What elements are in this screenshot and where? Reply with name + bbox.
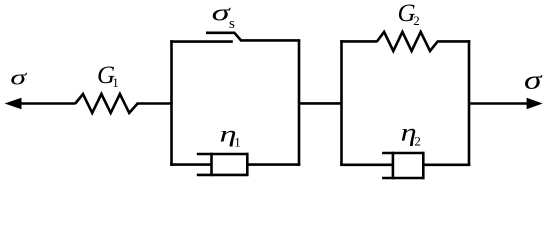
svg-text:σ: σ bbox=[524, 65, 543, 94]
wire: bottom edge left segment to dashpot η1 piston bbox=[170, 163, 211, 166]
dashpot η2 cylinder top wall bbox=[382, 152, 423, 155]
dashpot η2 cylinder right end bbox=[422, 152, 425, 180]
dashpot η1 piston plate bbox=[210, 153, 213, 177]
wire: left arrow shaft bbox=[20, 102, 76, 105]
dashpot η1 cylinder bottom wall bbox=[197, 174, 248, 177]
wire: dashpot η2 to Kelvin block bottom-right corner bbox=[423, 164, 470, 167]
spring G1 bbox=[75, 94, 137, 113]
Kelvin block left edge wire bbox=[340, 40, 343, 166]
dashpot η1 cylinder right end bbox=[246, 153, 249, 177]
svg-text:2: 2 bbox=[414, 134, 421, 149]
wire: right arrow shaft bbox=[469, 102, 528, 105]
spring G2 bbox=[377, 32, 438, 51]
right load arrowhead (σ direction) bbox=[527, 98, 543, 110]
Kelvin block right edge wire bbox=[468, 40, 471, 166]
friction slider σs lower plate (top edge left segment) bbox=[170, 40, 233, 43]
wire: Kelvin block bottom edge left segment to dashpot η2 piston bbox=[340, 164, 393, 167]
dashpot η2 cylinder bottom wall bbox=[382, 177, 423, 180]
friction slider σs upper plate bbox=[206, 33, 300, 41]
svg-text:1: 1 bbox=[234, 135, 241, 150]
left load arrowhead (σ direction) bbox=[5, 98, 22, 110]
svg-text:2: 2 bbox=[413, 13, 420, 28]
Bingham block left edge wire bbox=[170, 40, 173, 166]
svg-text:1: 1 bbox=[112, 75, 119, 90]
dashpot η2 piston plate bbox=[392, 152, 395, 180]
dashpot η1 cylinder top wall bbox=[197, 153, 248, 156]
wire: Kelvin block top edge right segment bbox=[437, 40, 470, 43]
Bingham block right edge wire bbox=[298, 40, 301, 166]
wire: Kelvin block top edge left segment bbox=[340, 40, 377, 43]
wire: dashpot η1 to Bingham block bottom-right corner bbox=[247, 163, 300, 166]
svg-text:s: s bbox=[229, 16, 235, 32]
svg-text:σ: σ bbox=[10, 65, 27, 89]
wire: Bingham block to Kelvin block (series link) bbox=[299, 102, 342, 105]
wire: spring G1 to Bingham block bbox=[137, 102, 173, 105]
